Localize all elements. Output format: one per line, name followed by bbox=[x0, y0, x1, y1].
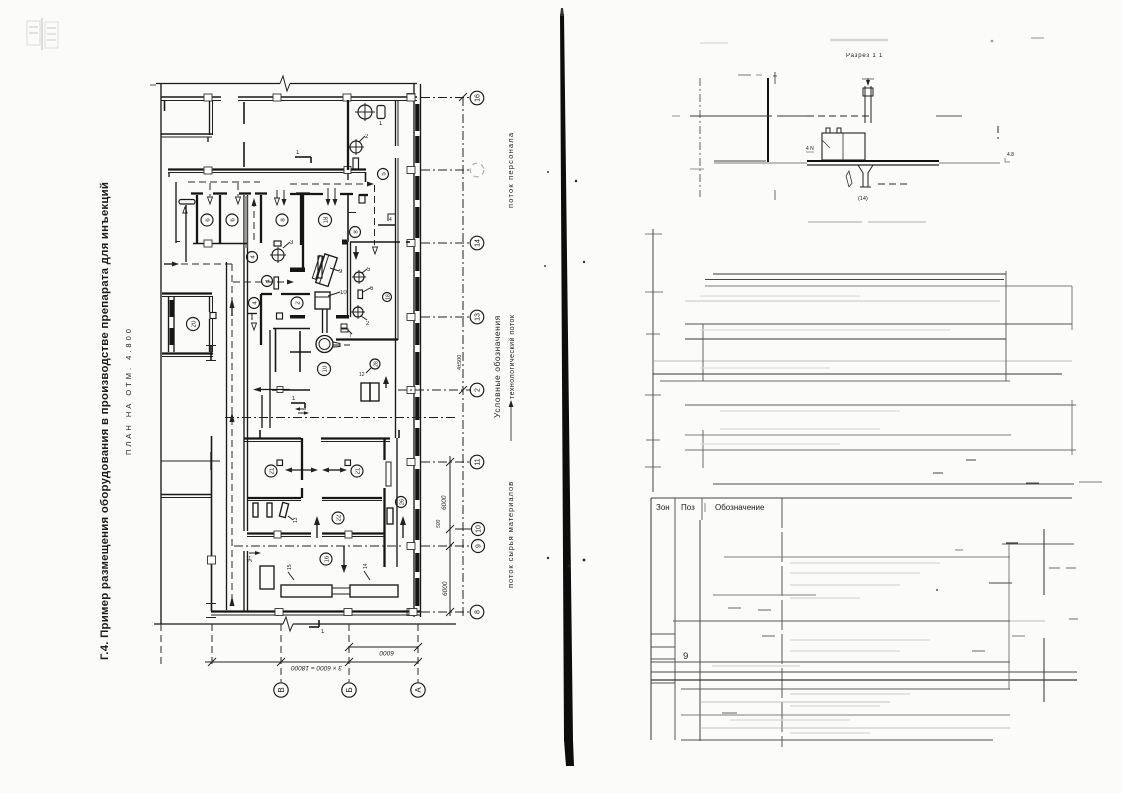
wall y339 bbox=[336, 338, 398, 340]
dash from carousel bbox=[333, 344, 350, 346]
flow dash mid horizontal bbox=[225, 417, 455, 419]
faint text smudges upper table bbox=[700, 296, 950, 444]
svg-text:Б: Б bbox=[345, 687, 354, 692]
circled 28 + machine 12 bbox=[370, 359, 380, 369]
wall y225 right bbox=[378, 224, 395, 226]
svg-text:28: 28 bbox=[374, 361, 380, 367]
svg-text:14: 14 bbox=[363, 563, 369, 569]
small rect on wall bbox=[359, 195, 365, 203]
axis bubble 16 bbox=[470, 91, 484, 105]
flag 14 bbox=[363, 563, 370, 580]
legend: tekhnologicheskiy potok with arrow bbox=[508, 314, 516, 441]
walls below top corridor bbox=[290, 193, 323, 195]
svg-text:11: 11 bbox=[475, 458, 482, 465]
top corridor device 1 bbox=[355, 103, 385, 127]
big rooms top wall bbox=[244, 437, 301, 439]
svg-text:21: 21 bbox=[270, 467, 276, 474]
row lines lower table bbox=[1002, 543, 1074, 545]
stray dashes bbox=[966, 459, 976, 461]
right wall x384 with door bbox=[383, 438, 385, 460]
svg-text:4 N: 4 N bbox=[806, 146, 814, 152]
svg-text:ПЛАН НА ОТМ. 4.800: ПЛАН НА ОТМ. 4.800 bbox=[124, 326, 133, 455]
rooms row lintels bbox=[191, 192, 310, 194]
axis bubble 13 bbox=[470, 310, 484, 324]
svg-text:Разрез 1 1: Разрез 1 1 bbox=[846, 53, 883, 59]
svg-text:9: 9 bbox=[476, 544, 483, 548]
row line y435 bbox=[685, 434, 1011, 436]
svg-text:поток сырья материалов: поток сырья материалов bbox=[506, 481, 515, 588]
svg-text:4±500: 4±500 bbox=[457, 355, 463, 370]
faint table caption bbox=[808, 221, 926, 223]
axis bubble 10 bbox=[472, 523, 485, 536]
device 2 cross circle bbox=[351, 305, 370, 327]
grid line vertical right bbox=[462, 97, 464, 617]
upper table left border bbox=[652, 229, 654, 492]
svg-text:(14): (14) bbox=[858, 196, 868, 202]
row line y286 bbox=[705, 285, 1072, 287]
flow arrow right entry bbox=[164, 263, 173, 265]
svg-text:14: 14 bbox=[475, 239, 482, 247]
flag 15 bbox=[287, 564, 294, 580]
spine specks bbox=[547, 171, 549, 173]
three door leaf rects bbox=[253, 503, 258, 517]
section mark 1 top bbox=[295, 150, 311, 163]
room circle 22 bbox=[332, 512, 344, 524]
left solid arrow y389 bbox=[260, 389, 290, 391]
machine room side walls bbox=[347, 242, 349, 317]
T device + open arrow bbox=[247, 313, 257, 315]
svg-text:10: 10 bbox=[476, 525, 483, 533]
svg-text:технологический поток: технологический поток bbox=[508, 314, 516, 399]
svg-text:6000: 6000 bbox=[379, 649, 394, 656]
window wall right exterior bbox=[413, 84, 415, 617]
svg-text:4.8: 4.8 bbox=[1007, 152, 1014, 158]
section: tall machine column bbox=[864, 86, 866, 123]
room circle 16 bbox=[320, 553, 332, 565]
section: left grid dash line bbox=[699, 78, 701, 197]
book spine bar bbox=[560, 14, 574, 766]
row line y361 bbox=[653, 360, 1072, 362]
svg-text:3 × 6000 = 18000: 3 × 6000 = 18000 bbox=[291, 664, 342, 671]
left boundary line bbox=[160, 84, 162, 624]
row line y374 bbox=[653, 373, 1062, 375]
vertical tick x1072 bbox=[1071, 286, 1073, 330]
room A top-left walls bbox=[209, 101, 211, 135]
zon column mini rows bbox=[651, 634, 675, 683]
circled 26 right bbox=[396, 497, 407, 508]
svg-text:10: 10 bbox=[323, 365, 329, 372]
left edge ticks bbox=[645, 234, 663, 467]
axis bubble 2 bbox=[470, 383, 484, 397]
column ticks on window wall bbox=[407, 94, 415, 616]
svg-text:10: 10 bbox=[340, 290, 347, 296]
device 5 cross circle bbox=[352, 267, 371, 284]
wall x348 upper bbox=[347, 100, 349, 170]
open down arrow bbox=[373, 247, 378, 254]
mid walls y498 bbox=[248, 497, 301, 499]
vertical dark lines in table bbox=[1008, 544, 1010, 689]
section: machine body bbox=[822, 133, 865, 160]
svg-text:Условные обозначения: Условные обозначения bbox=[492, 315, 502, 418]
conveyor tower bbox=[260, 566, 274, 589]
wall y390 with door sq bbox=[272, 389, 310, 391]
walls small rooms left-center bbox=[273, 328, 310, 330]
circled 4 pair corridor bbox=[247, 252, 258, 263]
lower table top border bbox=[651, 497, 1072, 499]
vertical tick x703 bbox=[702, 324, 704, 381]
wall y294 with door bbox=[261, 293, 272, 295]
svg-text:4: 4 bbox=[389, 217, 392, 223]
rooms bottom wall y533 bbox=[247, 532, 311, 534]
header tick bbox=[704, 503, 706, 512]
svg-text:18: 18 bbox=[324, 216, 330, 223]
bottom exterior wall double bbox=[211, 610, 420, 612]
down arrows into room 18 bbox=[327, 188, 329, 199]
door rect right corridor bbox=[387, 508, 393, 524]
small rect device below 2 bbox=[353, 158, 359, 169]
small squares in rooms bbox=[277, 460, 283, 466]
machine 10 bbox=[315, 292, 330, 309]
solid down arrow in room bbox=[355, 246, 357, 252]
fittings 7 bbox=[341, 324, 347, 328]
up arrow right bbox=[385, 380, 387, 388]
room19 down arrows bbox=[276, 190, 278, 198]
thin wall x186 bbox=[185, 205, 187, 262]
svg-text:9: 9 bbox=[683, 651, 688, 662]
section: hopper below floor bbox=[858, 165, 873, 187]
svg-text:поток персонала: поток персонала bbox=[506, 132, 515, 208]
row line y324 bbox=[685, 323, 1072, 325]
svg-text:2: 2 bbox=[475, 388, 482, 392]
axis bubble 9 bbox=[472, 540, 485, 553]
vertical tick x1006 bbox=[1005, 271, 1007, 381]
filling machine 9 bbox=[318, 256, 322, 278]
svg-text:Г.4. Пример размещения оборудо: Г.4. Пример размещения оборудования в пр… bbox=[99, 182, 111, 660]
device 3 bbox=[270, 240, 294, 263]
down arrow from dash bbox=[343, 546, 345, 565]
up arrows bbox=[316, 524, 318, 538]
row line y405 bbox=[685, 404, 1076, 406]
device 6 small rect bbox=[358, 290, 363, 299]
pipe column bbox=[322, 309, 324, 333]
tiny double arrows bbox=[296, 409, 308, 413]
faint text smudges lower table bbox=[712, 563, 940, 733]
svg-text:А: А bbox=[414, 687, 423, 693]
bottom dim line 6000 bbox=[349, 646, 418, 648]
svg-text:18: 18 bbox=[386, 294, 392, 300]
svg-text:20: 20 bbox=[192, 320, 198, 327]
long interior wall x211 bbox=[211, 436, 213, 611]
machine room top wall bbox=[350, 241, 400, 243]
svg-text:13: 13 bbox=[293, 517, 299, 523]
wall bars y316 bbox=[290, 315, 305, 319]
wall x396 segments bbox=[395, 100, 397, 146]
axis bubble V bbox=[274, 683, 288, 697]
section mark 2 left bbox=[246, 551, 261, 562]
room circle 2 bbox=[291, 297, 303, 309]
top corridor device 2 bbox=[348, 134, 369, 155]
svg-text:15: 15 bbox=[287, 564, 293, 570]
grid row dashes bbox=[421, 97, 471, 99]
top wall double bbox=[161, 96, 221, 98]
main flow dash vertical x232 bbox=[231, 264, 233, 606]
bottom dim line 18000 bbox=[205, 661, 418, 663]
axis bubble 14 bbox=[470, 236, 484, 250]
bench capsule device bbox=[179, 200, 195, 205]
door rect small bbox=[277, 313, 283, 319]
row line y274 bbox=[713, 273, 1006, 275]
line above lower table bbox=[713, 483, 1074, 485]
double arrows between rooms bbox=[290, 469, 313, 471]
flow dash y546 bbox=[234, 545, 404, 547]
svg-text:7: 7 bbox=[349, 333, 352, 339]
section: wall vertical dark bbox=[767, 78, 769, 162]
axis bubble B bbox=[342, 683, 356, 697]
flow dash y282 bbox=[233, 281, 287, 283]
bottom thin boundary line with break bbox=[154, 623, 283, 625]
axis bubble A bbox=[411, 683, 425, 697]
room 20 block bbox=[162, 292, 212, 294]
svg-text:26: 26 bbox=[400, 499, 406, 505]
stub wall x244 upper bbox=[164, 100, 166, 111]
stray marks right of table bbox=[936, 589, 938, 591]
svg-text:6000: 6000 bbox=[442, 581, 449, 596]
slash ticks on dim line bbox=[446, 93, 467, 616]
conveyor long rects bbox=[281, 585, 332, 597]
svg-text:16: 16 bbox=[325, 555, 331, 562]
section: floor slab dark bbox=[807, 160, 939, 162]
flow dashes into rooms bbox=[188, 181, 260, 183]
axis bubble 15 faint bbox=[470, 163, 484, 177]
svg-text:12: 12 bbox=[359, 372, 365, 378]
faint smudge above section title bbox=[830, 39, 888, 42]
svg-text:22: 22 bbox=[337, 514, 343, 521]
svg-text:Поз: Поз bbox=[681, 503, 695, 512]
top boundary line with break bbox=[156, 83, 280, 85]
circled 18 small bbox=[383, 293, 392, 302]
wing wall long horizontal bbox=[168, 168, 366, 170]
corridor flow up arrow bbox=[253, 200, 255, 242]
section mark 1 bottom bbox=[309, 620, 325, 635]
room circle 18 bbox=[319, 214, 332, 227]
svg-text:Обозначение: Обозначение bbox=[715, 503, 765, 512]
row line y339 bbox=[685, 338, 1006, 340]
room circle 6a bbox=[201, 214, 213, 226]
svg-text:11: 11 bbox=[246, 556, 251, 562]
carousel machine bbox=[316, 336, 333, 353]
dimension line vertical bbox=[449, 456, 451, 616]
section: right bits bbox=[997, 126, 999, 139]
stamp top-left bbox=[27, 18, 58, 50]
svg-text:8: 8 bbox=[475, 610, 482, 614]
rooms row bottom wall bbox=[193, 243, 247, 245]
svg-text:16: 16 bbox=[475, 94, 482, 102]
equip rect 18 bbox=[274, 277, 279, 289]
left wall shaft lower bbox=[243, 428, 245, 531]
svg-text:В: В bbox=[277, 687, 286, 692]
flow dash top corridor bbox=[290, 183, 368, 185]
svg-text:21: 21 bbox=[356, 467, 362, 474]
door flag 4 bbox=[388, 214, 395, 223]
axis bubble 8 bbox=[470, 605, 484, 619]
svg-text:Зон: Зон bbox=[656, 503, 670, 512]
corridor wall x226 bbox=[226, 262, 228, 610]
shaft wall double tall bbox=[243, 195, 245, 428]
svg-text:6000: 6000 bbox=[441, 495, 448, 510]
row line y301 bbox=[685, 300, 1000, 302]
room circle 5 bbox=[378, 169, 389, 180]
section: mid line left bbox=[714, 160, 766, 162]
room circles 21 bbox=[265, 465, 277, 477]
room circle 10 bbox=[318, 363, 331, 376]
room circle 8 bbox=[276, 214, 288, 226]
bottom extension dashes bbox=[160, 624, 162, 664]
rooms row walls bbox=[196, 195, 198, 243]
section mark 1 mid bbox=[291, 396, 305, 408]
row line y279 bbox=[705, 279, 1004, 281]
wall bar y268 bbox=[290, 268, 305, 273]
svg-text:500: 500 bbox=[436, 519, 442, 528]
middle wall x302 bbox=[301, 438, 303, 480]
row line y381 bbox=[660, 380, 1010, 382]
axis bubble 11 bbox=[470, 455, 484, 469]
row line y450 bbox=[685, 449, 1076, 451]
section: upper floor line bbox=[690, 115, 772, 117]
left wing lower walls bbox=[161, 460, 220, 462]
room circle 8c bbox=[350, 227, 361, 238]
svg-text:13: 13 bbox=[475, 313, 482, 321]
room circle 6b bbox=[226, 214, 238, 226]
table border verticals bbox=[650, 498, 652, 740]
